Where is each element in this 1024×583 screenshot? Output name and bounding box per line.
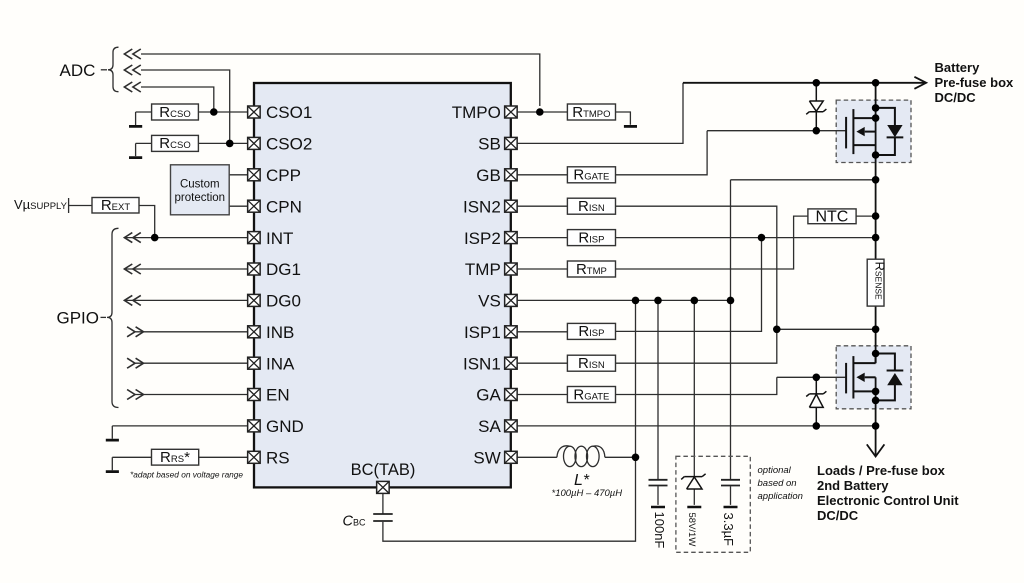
svg-text:TMP: TMP — [465, 260, 501, 279]
svg-text:100nF: 100nF — [652, 512, 667, 549]
svg-text:L*: L* — [574, 472, 590, 489]
svg-text:ADC: ADC — [60, 61, 96, 80]
svg-text:DG0: DG0 — [266, 292, 301, 311]
svg-text:NTC: NTC — [815, 209, 848, 226]
svg-text:ISP1: ISP1 — [464, 323, 501, 342]
svg-text:ISP2: ISP2 — [464, 229, 501, 248]
svg-text:Battery: Battery — [935, 60, 981, 75]
svg-text:ISN2: ISN2 — [463, 197, 501, 216]
svg-text:CSO1: CSO1 — [266, 103, 312, 122]
svg-text:GND: GND — [266, 417, 304, 436]
svg-text:*100µH – 470µH: *100µH – 470µH — [552, 488, 623, 499]
svg-text:GPIO: GPIO — [57, 309, 100, 328]
svg-text:3.3µF: 3.3µF — [721, 513, 736, 547]
svg-text:*adapt based on voltage range: *adapt based on voltage range — [130, 469, 243, 479]
svg-text:Loads / Pre-fuse box: Loads / Pre-fuse box — [817, 463, 946, 478]
svg-text:optional: optional — [758, 465, 792, 476]
svg-text:TMPO: TMPO — [452, 103, 501, 122]
svg-text:GA: GA — [476, 386, 501, 405]
svg-text:Pre-fuse box: Pre-fuse box — [935, 75, 1015, 90]
svg-text:INT: INT — [266, 229, 293, 248]
svg-text:protection: protection — [175, 192, 226, 204]
svg-text:DG1: DG1 — [266, 260, 301, 279]
svg-text:58V/1W: 58V/1W — [686, 513, 697, 547]
svg-text:2nd Battery: 2nd Battery — [817, 478, 889, 493]
svg-text:ISN1: ISN1 — [463, 354, 501, 373]
svg-text:SA: SA — [478, 417, 501, 436]
svg-text:EN: EN — [266, 386, 290, 405]
svg-text:RS: RS — [266, 449, 290, 468]
svg-text:INA: INA — [266, 354, 295, 373]
svg-text:SW: SW — [473, 449, 500, 468]
svg-text:INB: INB — [266, 323, 294, 342]
svg-text:application: application — [758, 491, 803, 502]
svg-text:CSO2: CSO2 — [266, 135, 312, 154]
svg-text:DC/DC: DC/DC — [935, 90, 977, 105]
svg-text:Custom: Custom — [180, 178, 220, 190]
svg-text:Electronic Control Unit: Electronic Control Unit — [817, 493, 959, 508]
svg-text:CPN: CPN — [266, 197, 302, 216]
svg-text:SB: SB — [478, 135, 501, 154]
svg-text:GB: GB — [476, 166, 501, 185]
svg-text:CPP: CPP — [266, 166, 301, 185]
svg-text:DC/DC: DC/DC — [817, 508, 859, 523]
svg-text:BC(TAB): BC(TAB) — [351, 461, 416, 479]
svg-text:based on: based on — [758, 478, 797, 489]
svg-text:VS: VS — [478, 292, 501, 311]
